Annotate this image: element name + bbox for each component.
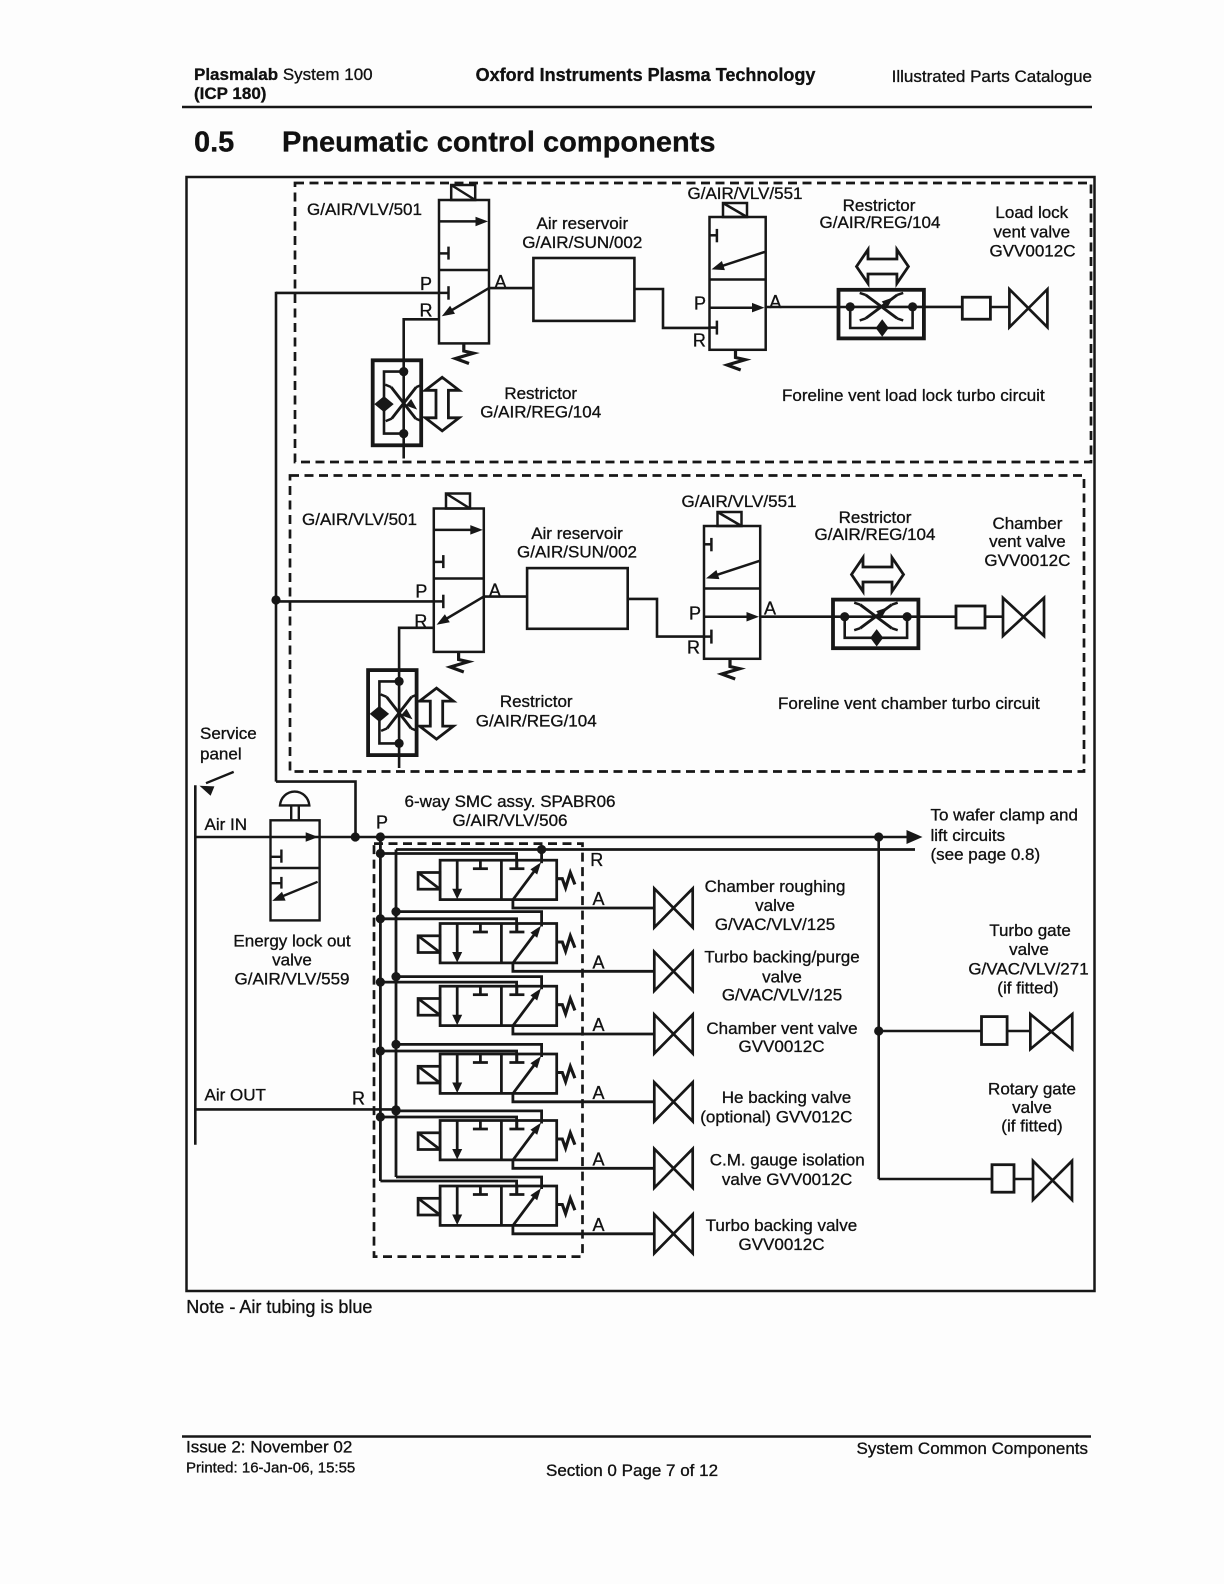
wire: fitting to load lock vent valve <box>990 306 1009 309</box>
restrictor G/AIR/REG/104 (chamber exhaust) <box>368 670 418 755</box>
svg-text:Chamber vent valve: Chamber vent valve <box>706 1019 857 1038</box>
svg-text:R: R <box>590 850 603 870</box>
SMC solenoid valve 6 (Turbo backing valve) <box>418 1186 575 1225</box>
svg-text:P: P <box>376 813 388 833</box>
svg-text:Service: Service <box>200 724 257 743</box>
label Energy lock out valve G/AIR/VLV/559 <box>233 932 350 989</box>
SMC solenoid valve 4 (He backing valve) <box>418 1054 575 1093</box>
junction: R rail valve 2 <box>391 907 400 916</box>
svg-text:0.5: 0.5 <box>194 127 234 159</box>
svg-text:Air reservoir: Air reservoir <box>536 214 628 233</box>
svg-text:R: R <box>352 1089 365 1109</box>
pilot valve G/AIR/VLV/551 (chamber) <box>704 512 760 679</box>
wire: R rail to SMC valve 5 exhaust <box>396 1111 542 1124</box>
svg-text:Illustrated Parts Catalogue: Illustrated Parts Catalogue <box>892 67 1092 86</box>
load lock vent valve GVV0012C symbol <box>1009 289 1047 327</box>
wire: P rail to SMC valve 4 port <box>380 1051 516 1063</box>
wire: R rail to SMC valve 3 exhaust <box>396 977 542 990</box>
wire: R rail to SMC valve 6 exhaust <box>396 1177 542 1189</box>
junction: supply rail to chamber P wire <box>271 595 280 604</box>
svg-text:G/AIR/REG/104: G/AIR/REG/104 <box>480 403 601 422</box>
wire: R rail to SMC valve 2 exhaust <box>396 912 542 927</box>
svg-text:G/AIR/REG/104: G/AIR/REG/104 <box>476 712 597 731</box>
label Turbo gate valve G/VAC/VLV/271 (if fitted) <box>968 921 1088 998</box>
svg-text:R: R <box>693 331 706 351</box>
svg-text:A: A <box>593 1015 605 1035</box>
svg-text:G/AIR/VLV/506: G/AIR/VLV/506 <box>453 811 568 830</box>
svg-text:P: P <box>694 294 706 314</box>
label Chamber vent valve GVV0012C (SMC) <box>706 1019 857 1056</box>
rotary gate valve actuator fitting <box>992 1165 1014 1193</box>
svg-text:P: P <box>420 274 432 294</box>
svg-text:G/AIR/VLV/551: G/AIR/VLV/551 <box>682 492 797 511</box>
junction: P rail valve 2 <box>376 914 385 923</box>
dashed enclosure: 6-way SMC assembly <box>374 844 583 1257</box>
He backing valve symbol <box>654 1082 692 1121</box>
wire: VLV/501 R port to restrictor below <box>404 319 439 360</box>
svg-text:To wafer clamp and: To wafer clamp and <box>931 806 1078 825</box>
svg-text:(if fitted): (if fitted) <box>997 979 1058 998</box>
label To wafer clamp and lift circuits (see page 0.8) <box>931 806 1078 865</box>
double arrow symbol above restrictor <box>857 250 909 284</box>
svg-text:Section 0 Page 7 of 12: Section 0 Page 7 of 12 <box>546 1461 718 1480</box>
wire: to turbo gate valve <box>879 1030 982 1033</box>
R exhaust line to right <box>396 848 915 851</box>
wire: chamber reservoir to R port of VLV/551 <box>628 599 704 637</box>
rotary gate valve symbol <box>1033 1161 1072 1200</box>
wire: air supply to P port of VLV/501 <box>276 292 439 295</box>
port labels P A R of G/AIR/VLV/551 <box>693 292 782 351</box>
label He backing valve (optional) GVV012C <box>700 1088 852 1127</box>
label Turbo backing valve GVV0012C <box>706 1216 858 1254</box>
junction: P rail valve 4 <box>376 1046 385 1055</box>
svg-text:A: A <box>593 952 605 972</box>
wire: chamber VLV/551 A to restrictor <box>760 615 845 618</box>
arrow: to wafer clamp and lift circuits <box>879 830 923 844</box>
port labels P A R of chamber VLV/551 <box>687 599 776 658</box>
svg-text:Foreline vent load lock turbo: Foreline vent load lock turbo circuit <box>782 386 1045 405</box>
junction: turbo gate valve branch <box>874 1026 883 1035</box>
footer left: Issue 2 November 02 / Printed 16-Jan-06 <box>186 1438 355 1477</box>
svg-text:Restrictor: Restrictor <box>500 692 573 711</box>
svg-text:R: R <box>420 301 433 321</box>
junction: valve 1 exhaust on R line <box>537 845 546 854</box>
air reservoir G/AIR/SUN/002 (chamber) <box>527 568 628 629</box>
svg-text:Air reservoir: Air reservoir <box>531 524 623 543</box>
page header left: Plasmalab System 100 (ICP 180) <box>194 65 373 103</box>
wire: SMC valve 3 A output <box>513 1026 654 1034</box>
svg-text:G/AIR/REG/104: G/AIR/REG/104 <box>820 213 941 232</box>
svg-text:He backing valve: He backing valve <box>722 1088 851 1107</box>
svg-text:(optional) GVV012C: (optional) GVV012C <box>700 1108 852 1127</box>
solenoid valve G/AIR/VLV/501 (chamber) <box>434 494 484 673</box>
svg-text:G/AIR/VLV/551: G/AIR/VLV/551 <box>688 184 803 203</box>
junction: Air OUT to R rail <box>391 1105 400 1114</box>
wire: VLV/501 A port to air reservoir <box>489 287 533 290</box>
svg-text:Energy lock out: Energy lock out <box>233 932 350 951</box>
wire: reservoir to R port of VLV/551 <box>634 289 709 328</box>
header rule <box>182 106 1092 109</box>
diagram outer border <box>187 177 1095 1291</box>
svg-text:System Common Components: System Common Components <box>857 1439 1088 1458</box>
svg-text:Plasmalab System 100: Plasmalab System 100 <box>194 65 373 84</box>
svg-text:Printed: 16-Jan-06, 15:55: Printed: 16-Jan-06, 15:55 <box>186 1460 355 1477</box>
svg-text:G/AIR/VLV/501: G/AIR/VLV/501 <box>307 200 422 219</box>
wire: chamber restrictor exhaust stub <box>398 755 401 768</box>
svg-text:Rotary gate: Rotary gate <box>988 1080 1076 1099</box>
turbo backing/purge valve symbol <box>654 952 692 991</box>
svg-text:G/AIR/SUN/002: G/AIR/SUN/002 <box>522 233 642 252</box>
label Service panel <box>200 724 257 764</box>
svg-text:GVV0012C: GVV0012C <box>739 1037 825 1056</box>
label Restrictor G/AIR/REG/104 (load lock exhaust) <box>480 384 601 422</box>
svg-text:Chamber: Chamber <box>992 514 1062 533</box>
svg-text:valve: valve <box>755 896 795 915</box>
svg-text:Chamber roughing: Chamber roughing <box>705 877 846 896</box>
wire: chamber VLV/501 R port to restrictor below <box>399 628 434 670</box>
junction: P rail valve 1 <box>376 849 385 858</box>
wire: Air OUT line <box>195 1108 396 1111</box>
svg-text:valve: valve <box>762 968 802 987</box>
label Restrictor G/AIR/REG/104 (chamber exhaust) <box>476 692 597 731</box>
inline fitting load lock vent valve <box>962 297 990 319</box>
svg-text:Pneumatic control components: Pneumatic control components <box>282 127 715 159</box>
junction: R rail valve 4 <box>391 1040 400 1049</box>
svg-text:valve: valve <box>272 951 312 970</box>
wire: SMC valve 1 A output <box>513 900 654 908</box>
svg-text:GVV0012C: GVV0012C <box>739 1235 825 1254</box>
section heading 0.5 Pneumatic control components <box>194 127 715 159</box>
wire: SMC valve 4 A output <box>513 1093 654 1101</box>
label 6-way SMC assy. SPABR06 G/AIR/VLV/506 <box>405 792 616 830</box>
restrictor G/AIR/REG/104 (load lock line) <box>839 290 924 339</box>
wire: Air IN supply line / P line <box>195 836 878 839</box>
SMC solenoid valve 1 (Chamber roughing valve) <box>418 860 575 899</box>
service panel pointer arrow <box>200 772 234 796</box>
port labels P A R of G/AIR/VLV/501 <box>420 272 507 321</box>
svg-text:Oxford Instruments Plasma Tech: Oxford Instruments Plasma Technology <box>476 65 816 85</box>
svg-text:G/AIR/SUN/002: G/AIR/SUN/002 <box>517 543 637 562</box>
port labels P A R of chamber VLV/501 <box>414 581 501 632</box>
svg-text:A: A <box>593 1215 605 1235</box>
wire: SMC valve 2 A output <box>513 963 654 971</box>
label Air reservoir G/AIR/SUN/002 (load lock) <box>522 214 642 252</box>
wire: through restrictor to vent valve <box>850 306 962 309</box>
svg-text:GVV0012C: GVV0012C <box>984 551 1070 570</box>
double arrow symbol beside restrictor <box>425 377 459 431</box>
wire: chamber VLV/501 A port to reservoir <box>484 595 527 598</box>
svg-text:Turbo backing/purge: Turbo backing/purge <box>704 948 859 967</box>
junction: R rail valve 3 <box>391 972 400 981</box>
label Restrictor G/AIR/REG/104 (load lock line) <box>820 196 941 232</box>
wire: to rotary gate valve <box>879 1178 992 1181</box>
svg-text:6-way SMC assy. SPABR06: 6-way SMC assy. SPABR06 <box>405 792 616 811</box>
junction: P rail valve 3 <box>376 978 385 987</box>
label Restrictor G/AIR/REG/104 (chamber line) <box>815 508 936 544</box>
svg-text:Load lock: Load lock <box>995 203 1068 222</box>
svg-text:valve: valve <box>1012 1098 1052 1117</box>
svg-text:Note - Air tubing is blue: Note - Air tubing is blue <box>186 1297 372 1317</box>
wire: P rail to SMC valve 1 port <box>380 854 516 869</box>
footer rule <box>182 1435 1091 1437</box>
chamber vent valve symbol (SMC) <box>654 1015 692 1054</box>
svg-text:(ICP 180): (ICP 180) <box>194 84 266 103</box>
svg-text:GVV0012C: GVV0012C <box>990 242 1076 261</box>
dashed enclosure: chamber vent circuit <box>290 476 1084 772</box>
chamber vent valve GVV0012C symbol <box>1003 598 1044 636</box>
svg-text:Air OUT: Air OUT <box>205 1086 266 1105</box>
svg-text:P: P <box>689 604 701 624</box>
wire: VLV/551 A port to restrictor <box>766 306 850 309</box>
wire: SMC valve 5 A output <box>513 1160 654 1168</box>
wire: branch down to gate valves <box>877 837 880 1179</box>
turbo gate valve symbol <box>1030 1014 1072 1049</box>
energy lock out valve G/AIR/VLV/559 <box>271 792 320 921</box>
wire: R rail to SMC valve 4 exhaust <box>396 1044 542 1057</box>
air reservoir G/AIR/SUN/002 (load lock) <box>533 258 634 321</box>
double arrow beside chamber exhaust restrictor <box>420 688 454 739</box>
wire: supply rail down left side <box>275 292 278 782</box>
label Air reservoir G/AIR/SUN/002 (chamber) <box>517 524 637 562</box>
wire: R rail to SMC valve 1 exhaust <box>540 850 543 864</box>
wire: P rail to SMC valve 3 port <box>380 982 516 995</box>
wire: P rail to SMC valve 5 port <box>380 1117 516 1129</box>
chamber roughing valve symbol <box>654 889 692 928</box>
restrictor G/AIR/REG/104 (chamber line) <box>833 600 918 649</box>
svg-text:Turbo gate: Turbo gate <box>989 921 1071 940</box>
svg-text:G/AIR/VLV/501: G/AIR/VLV/501 <box>302 510 417 529</box>
restrictor G/AIR/REG/104 (load lock exhaust) <box>373 360 423 445</box>
svg-text:G/AIR/VLV/559: G/AIR/VLV/559 <box>235 970 350 989</box>
SMC solenoid valve 5 (C.M. gauge isolation valve) <box>418 1121 575 1160</box>
SMC R rail <box>395 850 398 1178</box>
wire: fitting to turbo gate valve <box>1007 1030 1030 1033</box>
C.M. gauge isolation valve symbol <box>654 1149 692 1188</box>
svg-text:A: A <box>769 292 781 312</box>
dashed enclosure: load lock vent circuit <box>295 183 1091 462</box>
inline fitting chamber vent valve <box>956 606 985 628</box>
svg-text:Air IN: Air IN <box>205 815 248 834</box>
wire: restrictor exhaust stub <box>402 445 405 458</box>
svg-text:valve: valve <box>1009 940 1049 959</box>
SMC solenoid valve 3 (Chamber vent valve) <box>418 986 575 1025</box>
wire: SMC valve 6 A output <box>513 1225 654 1233</box>
label Turbo backing/purge valve G/VAC/VLV/125 <box>704 948 859 1005</box>
turbo backing valve symbol <box>654 1214 692 1253</box>
svg-text:(if fitted): (if fitted) <box>1001 1117 1062 1136</box>
label Chamber roughing valve G/VAC/VLV/125 <box>705 877 846 934</box>
turbo gate valve actuator fitting <box>982 1017 1008 1045</box>
junction: P line to SMC P rail <box>376 832 385 841</box>
label Load lock vent valve GVV0012C <box>990 203 1076 261</box>
wire: supply rail jog to P line <box>276 782 356 837</box>
double arrow above chamber restrictor <box>852 558 904 592</box>
svg-text:valve GVV0012C: valve GVV0012C <box>722 1170 852 1189</box>
svg-text:Foreline vent chamber turbo ci: Foreline vent chamber turbo circuit <box>778 694 1040 713</box>
svg-text:G/VAC/VLV/125: G/VAC/VLV/125 <box>722 986 842 1005</box>
svg-text:(see page 0.8): (see page 0.8) <box>931 845 1041 864</box>
svg-text:G/VAC/VLV/271: G/VAC/VLV/271 <box>968 960 1088 979</box>
svg-text:vent valve: vent valve <box>994 223 1071 242</box>
svg-text:A: A <box>593 1083 605 1103</box>
svg-text:panel: panel <box>200 745 242 764</box>
wire: through restrictor to chamber vent valve <box>845 615 956 618</box>
svg-text:R: R <box>687 638 700 658</box>
svg-text:Restrictor: Restrictor <box>504 384 577 403</box>
svg-text:A: A <box>593 889 605 909</box>
svg-text:P: P <box>415 582 427 602</box>
pilot valve G/AIR/VLV/551 (load lock) <box>710 203 766 370</box>
SMC P rail <box>379 837 382 1181</box>
service panel boundary line <box>194 785 197 1145</box>
wire: P rail to SMC valve 6 port <box>380 1181 516 1195</box>
label C.M. gauge isolation valve GVV0012C <box>710 1151 865 1190</box>
junction: P rail valve 5 <box>376 1112 385 1121</box>
svg-text:G/AIR/REG/104: G/AIR/REG/104 <box>815 525 936 544</box>
junction: R rail valve 5 <box>391 1106 400 1115</box>
SMC solenoid valve 2 (Turbo backing/purge valve) <box>418 924 575 963</box>
wire: fitting to rotary gate valve <box>1014 1178 1033 1181</box>
junction: jog meets P line <box>351 832 360 841</box>
wire: supply rail to P port of chamber VLV/501 <box>276 600 434 603</box>
solenoid valve G/AIR/VLV/501 (load lock) <box>439 185 489 364</box>
wire: fitting to chamber vent valve <box>985 615 1003 618</box>
wire: P rail to SMC valve 2 port <box>380 919 516 932</box>
svg-text:Turbo backing valve: Turbo backing valve <box>706 1216 858 1235</box>
junction: P line branch to wafer clamp <box>874 832 883 841</box>
svg-text:C.M. gauge isolation: C.M. gauge isolation <box>710 1151 865 1170</box>
label Rotary gate valve (if fitted) <box>988 1080 1076 1136</box>
svg-text:Issue 2: November 02: Issue 2: November 02 <box>186 1438 352 1457</box>
label Chamber vent valve GVV0012C <box>984 514 1070 570</box>
svg-text:G/VAC/VLV/125: G/VAC/VLV/125 <box>715 915 835 934</box>
svg-text:lift circuits: lift circuits <box>931 826 1006 845</box>
svg-text:A: A <box>593 1149 605 1169</box>
svg-text:vent valve: vent valve <box>989 532 1066 551</box>
